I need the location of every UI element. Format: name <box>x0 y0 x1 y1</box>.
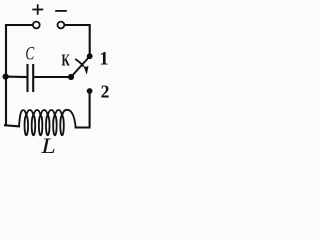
svg-text:L: L <box>40 135 56 159</box>
svg-text:C: C <box>25 45 34 65</box>
svg-text:2: 2 <box>101 82 110 102</box>
svg-text:1: 1 <box>99 50 108 70</box>
svg-text:К: К <box>61 51 70 70</box>
